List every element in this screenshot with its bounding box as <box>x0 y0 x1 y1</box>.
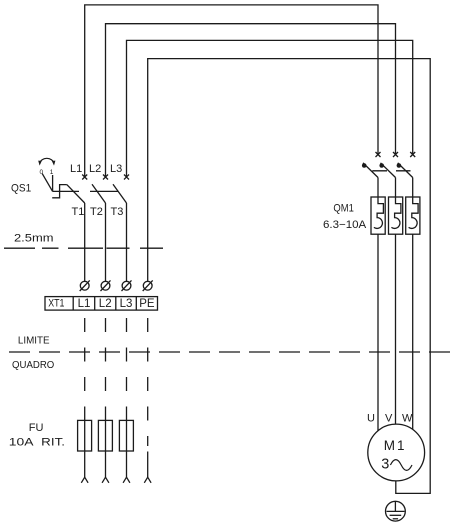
wire T3 <box>126 203 128 281</box>
boundary line LIMITE/QUADRO (dashed across page) <box>9 351 453 353</box>
svg-text:6.3−10A: 6.3−10A <box>323 219 367 231</box>
wire L3 dashed <box>126 311 128 420</box>
svg-text:XT1: XT1 <box>48 298 64 310</box>
svg-text:L1: L1 <box>78 298 91 310</box>
node L3 terminal cross at QS1 <box>124 175 129 180</box>
svg-text:L2: L2 <box>89 163 101 175</box>
fuse FU pole 1 <box>78 420 92 451</box>
2.5mm boundary dashes <box>4 247 163 249</box>
breaker QM1 pole 3 wire to element <box>412 178 414 198</box>
breaker QM1 pole 1 wire to element <box>377 178 379 198</box>
svg-text:QM1: QM1 <box>333 202 354 214</box>
switch QS1 handle arc with arrowheads <box>40 158 54 163</box>
switch QS1 blade pole 2 <box>92 184 106 203</box>
breaker QM1 thermal element pole 2 <box>389 197 403 234</box>
node L1 terminal cross at QS1 <box>82 175 87 180</box>
switch QS1 blade pole 1 <box>67 185 85 203</box>
svg-text:L3: L3 <box>120 298 133 310</box>
wire below fuse 3 <box>126 451 128 477</box>
terminal ferrule L2 <box>101 281 110 290</box>
svg-text:PE: PE <box>139 298 155 310</box>
breaker QM1 blade pole 3 with dot <box>398 163 413 178</box>
wire T1 <box>84 203 86 281</box>
breaker QM1 blade pole 2 with dot <box>381 163 396 178</box>
wire L2 loop (top) <box>106 24 396 177</box>
terminal ferrule PE <box>143 281 152 290</box>
wire T2 <box>105 203 107 281</box>
wire below fuse 2 <box>105 451 107 477</box>
svg-text:T2: T2 <box>90 206 103 218</box>
svg-text:M: M <box>384 438 395 453</box>
breaker QM1 blade pole 1 with dot <box>363 163 378 178</box>
breaker QM1 thermal element pole 3 <box>406 197 420 234</box>
wire L2 dashed <box>105 311 107 420</box>
svg-text:10A: 10A <box>9 437 35 449</box>
motor M1 circle <box>368 424 425 481</box>
continuation arrow wire PE <box>144 477 151 483</box>
svg-text:L2: L2 <box>99 298 112 310</box>
breaker QM1 terminal cross pole 3 <box>410 152 415 157</box>
breaker QM1 terminal cross pole 1 <box>376 152 381 157</box>
switch QS1 step bracket <box>52 185 67 198</box>
wire L1 dashed (below XT1) <box>84 311 86 420</box>
wire PE dashed <box>147 311 149 446</box>
svg-text:U: U <box>367 413 375 425</box>
svg-text:2.5mm: 2.5mm <box>14 233 54 245</box>
svg-text:QS1: QS1 <box>11 183 31 195</box>
svg-text:3: 3 <box>381 457 389 473</box>
continuation arrow wire 2 <box>102 477 109 483</box>
terminal block XT1 <box>45 297 158 311</box>
wire U (QM1 to motor) <box>377 234 379 431</box>
wire PE solid tail <box>147 452 149 478</box>
breaker QM1 pole 2 wire to element <box>395 178 397 198</box>
breaker QM1 terminal cross pole 2 <box>393 152 398 157</box>
svg-text:1: 1 <box>397 438 405 453</box>
continuation arrow wire 1 <box>81 477 88 483</box>
wire L1 loop (top) <box>85 5 378 177</box>
svg-text:L3: L3 <box>110 163 122 175</box>
earth ground symbol <box>386 501 406 521</box>
svg-text:FU: FU <box>29 422 44 434</box>
switch QS1 handle diagonal <box>42 174 52 192</box>
svg-text:T1: T1 <box>72 206 85 218</box>
svg-text:T3: T3 <box>111 206 124 218</box>
switch QS1 blade pole 3 <box>113 184 127 203</box>
svg-text:0: 0 <box>40 169 44 176</box>
svg-text:LIMITE: LIMITE <box>18 335 50 347</box>
continuation arrow wire 3 <box>123 477 130 483</box>
motor 3-phase sine symbol <box>390 460 412 471</box>
wire W <box>412 234 414 429</box>
svg-text:QUADRO: QUADRO <box>12 359 54 371</box>
switch QS1 mechanical linkage (dashed) <box>53 190 118 192</box>
wire L3 loop (top) <box>127 40 413 177</box>
breaker QM1 linkage dashes <box>372 170 410 172</box>
svg-text:W: W <box>402 413 413 425</box>
wire below fuse 1 <box>84 451 86 477</box>
breaker QM1 thermal element pole 1 <box>371 197 385 234</box>
terminal ferrule L3 <box>122 281 131 290</box>
svg-text:1: 1 <box>50 169 54 176</box>
wire PE loop (top, down to motor frame) <box>148 59 431 494</box>
fuse FU pole 2 <box>98 420 112 451</box>
svg-text:V: V <box>385 413 393 425</box>
wire V <box>395 234 397 424</box>
svg-text:L1: L1 <box>70 163 82 175</box>
svg-text:RIT.: RIT. <box>41 437 65 449</box>
terminal ferrule L1 (circle-slash) <box>80 281 89 290</box>
switch QS1 handle vertical <box>52 175 54 191</box>
fuse FU pole 3 <box>119 420 133 451</box>
node L2 terminal cross at QS1 <box>103 175 108 180</box>
